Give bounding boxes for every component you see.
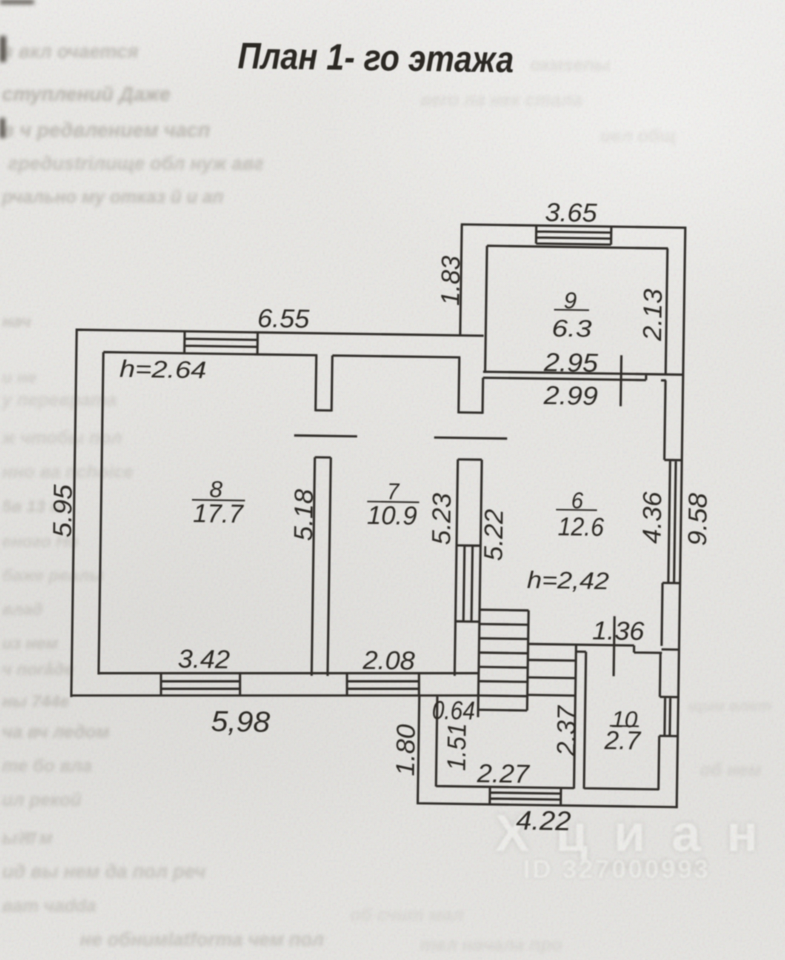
- dimension tick between 2.95 and 2.99: [619, 355, 622, 406]
- left block bottom wall (scan-warped level): [71, 673, 478, 695]
- door opening room7-room6: [434, 412, 508, 460]
- window room10 right wall: [659, 697, 678, 736]
- staircase upper flight: [478, 610, 528, 711]
- window entry bottom wall: [490, 787, 561, 806]
- underline room 9 label: [554, 309, 589, 312]
- room 10 walls: [574, 645, 661, 790]
- underline room 7 label: [367, 501, 419, 504]
- room 8 inner walls: [99, 352, 318, 678]
- dimension and room labels: [43, 33, 720, 839]
- window room8 bottom wall: [161, 673, 240, 695]
- outer wall: right block (rooms 9,6,10): [452, 223, 686, 808]
- underline room 10 label: [610, 725, 639, 727]
- window room8 top wall: [184, 331, 257, 354]
- wall room9/room6 with door notch: [483, 372, 683, 381]
- window room6 right wall: [663, 460, 682, 583]
- staircase lower flight: [527, 660, 576, 696]
- entry extension walls: [417, 695, 680, 808]
- room 9 inner walls: [485, 246, 668, 376]
- window in wall room7/room6: [455, 545, 480, 621]
- door opening room8-room7: [294, 410, 358, 458]
- page edge marks: [0, 36, 6, 62]
- underline room 8 label: [192, 499, 245, 502]
- wall: left block bottom: [71, 673, 478, 695]
- Cian watermark: [495, 804, 784, 885]
- dimension tick 1.36: [612, 616, 615, 676]
- outer wall: left block (rooms 8,7): [70, 329, 483, 704]
- wall room7/room6 right line: [478, 378, 483, 717]
- room 7 inner walls: [328, 355, 461, 677]
- window room7 bottom wall: [347, 673, 419, 695]
- underline room 6 label: [556, 509, 597, 512]
- window room9 top wall: [536, 225, 611, 244]
- wall room6/room10 with door opening: [528, 644, 679, 653]
- room 6 right inner wall: [662, 380, 666, 645]
